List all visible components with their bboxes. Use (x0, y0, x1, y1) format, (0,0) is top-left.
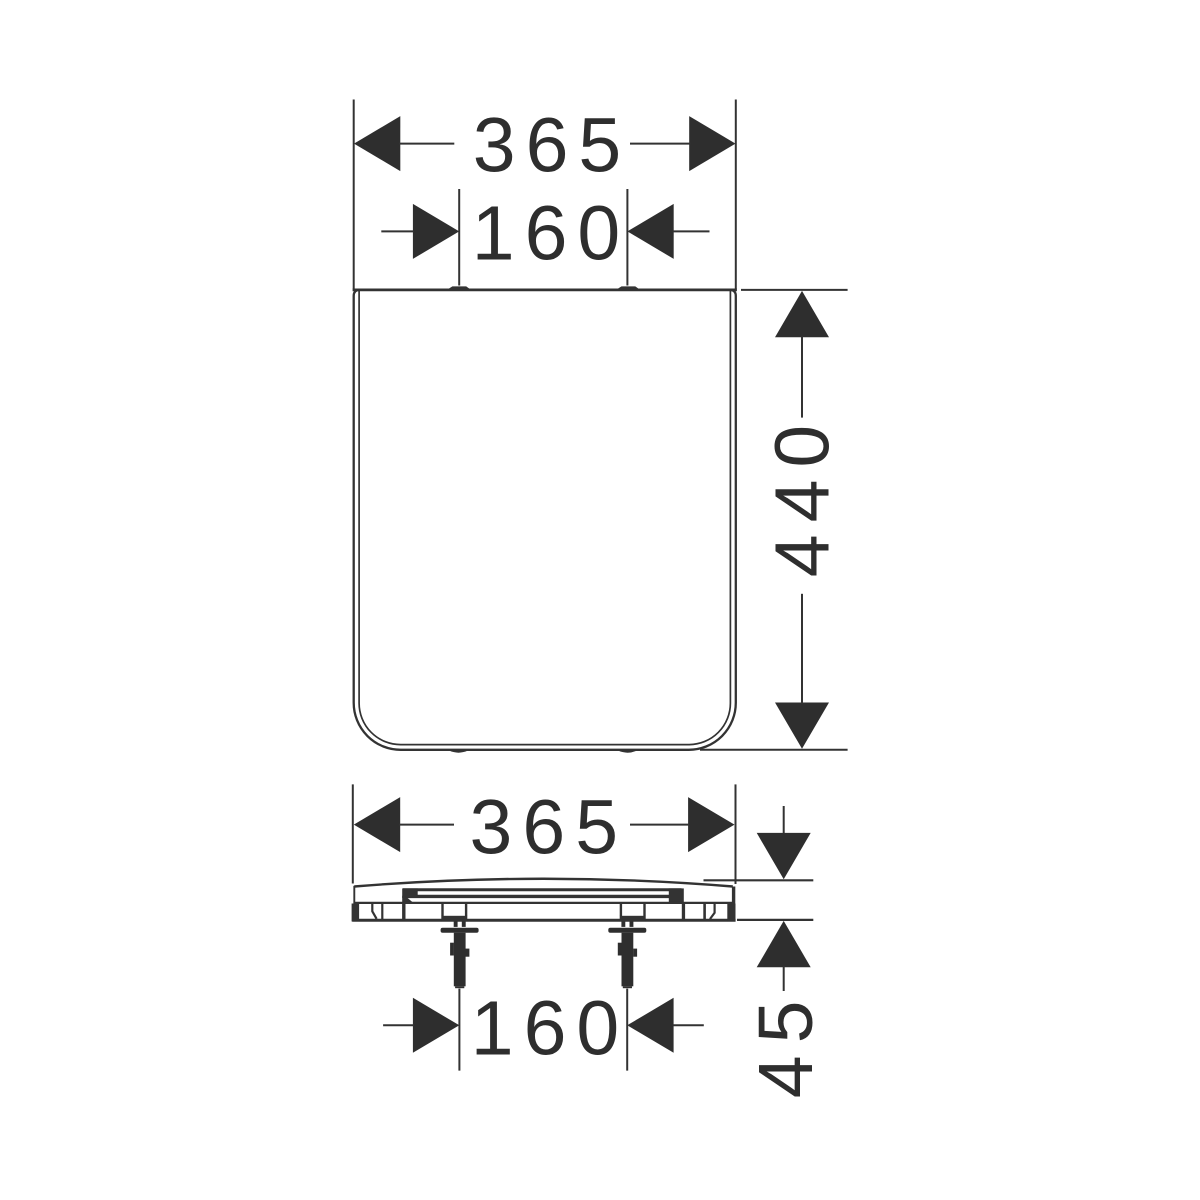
svg-text:440: 440 (760, 413, 846, 577)
dimension 440 (right): up arrow (775, 291, 829, 337)
dimension 365 (top): left arrow (354, 116, 400, 171)
svg-text:160: 160 (471, 986, 629, 1072)
dimension 45: upper stem (783, 806, 785, 835)
dimension 160 (bottom): left extension line (458, 989, 460, 1071)
side view: groove right end cap (669, 888, 684, 902)
top view: seat lid top edge (thicker) (353, 288, 737, 291)
top view: seat lid outer outline (354, 290, 736, 750)
dimension 365 (bottom): right extension line (735, 784, 737, 884)
dimension 160 (bottom): left arrow (413, 998, 459, 1053)
svg-text:365: 365 (470, 785, 628, 871)
top view: left bumper bump on bottom edge (450, 751, 468, 753)
dimension 365 (bottom): left extension line (352, 784, 354, 883)
dimension 160 (bottom): right extension line (626, 989, 628, 1071)
side view: left small divider (381, 904, 383, 919)
dimension 45: down arrow (757, 833, 811, 879)
dimension 440 (right): bottom extension line (700, 749, 848, 751)
side view: right thick divider under groove cap (682, 904, 685, 920)
side view: right hinge box (620, 904, 622, 916)
dimension 365 (bottom): dimension line tails (399, 824, 454, 826)
dimension 45: lower stem (783, 966, 785, 991)
dimension 160 (bottom): dimension line tails (383, 1024, 414, 1026)
dimension 160 (top): right extension line (626, 189, 628, 286)
side view: left end edge (353, 886, 355, 904)
dimension 365 (top): left extension line (353, 100, 355, 290)
dimension 160 (top): dimension line tails (381, 230, 414, 232)
top view: left hinge bump on top edge (448, 286, 470, 289)
dimension 440 (right): value label (rotated) (760, 413, 846, 577)
side view: mid line (seat ring top) (354, 902, 733, 904)
side view: left thick divider under groove cap (402, 904, 405, 920)
dimension 45: up arrow (757, 921, 811, 967)
svg-text:365: 365 (473, 103, 631, 189)
dimension 160 (top): left arrow (413, 204, 459, 259)
side view: left Z divider (372, 904, 376, 919)
side view: left hinge box (441, 904, 443, 916)
side view: right fixing bolt (608, 922, 646, 989)
dimension 365 (top): right extension line (735, 100, 737, 290)
dimension 365 (bottom): left arrow (354, 797, 400, 852)
svg-text:45: 45 (743, 989, 829, 1099)
dimension 365 (top): dimension line segments (399, 143, 454, 145)
side view: lower band left end cap (352, 904, 360, 922)
top view: seat lid inner contour (359, 291, 730, 745)
side view: groove bottom line (403, 895, 682, 898)
dimension 440 (right): top extension line (741, 289, 848, 291)
dimension 160 (top): right arrow (627, 204, 673, 259)
dimension 45 (right of side view): bottom extension line (737, 919, 813, 921)
top view: right hinge bump on top edge (617, 286, 639, 289)
side view: groove top line (403, 888, 682, 891)
dimension 365 (bottom): right arrow (688, 797, 734, 852)
side view: right small divider (703, 904, 706, 919)
dimension 365 (top): right arrow (689, 116, 735, 171)
side view: right end edge (732, 887, 735, 905)
top view: right bumper bump on bottom edge (619, 751, 637, 753)
side view: groove left end cap (402, 888, 418, 898)
side view: right Z divider (710, 904, 715, 919)
side view: bottom line (352, 919, 735, 922)
dimension 45: value label (rotated) (743, 989, 829, 1099)
dimension 440 (right): dimension line segments (801, 336, 803, 418)
side view: seat top surface arc (354, 879, 733, 887)
dimension 440 (right): down arrow (775, 703, 829, 749)
svg-text:160: 160 (472, 191, 630, 277)
dimension 45 (right of side view): top extension line (704, 879, 814, 881)
side view: left fixing bolt (441, 922, 479, 989)
dimension 160 (bottom): right arrow (627, 998, 673, 1053)
dimension 160 (top): left extension line (458, 189, 460, 286)
side view: lower band right end cap (727, 904, 735, 922)
